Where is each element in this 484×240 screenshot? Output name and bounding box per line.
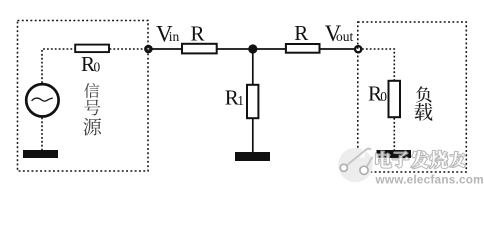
ground (middle, below R1) (235, 152, 270, 161)
wire R1 to ground (252, 119, 254, 152)
svg-text:0: 0 (94, 60, 101, 75)
label Vin (156, 22, 180, 47)
svg-text:www.elecfans.com: www.elecfans.com (375, 172, 484, 186)
wire (dotted) Vout to load R0 (362, 49, 394, 150)
svg-text:0: 0 (380, 89, 387, 104)
ground (load) (377, 150, 412, 158)
load enclosure (dashed box) (358, 22, 467, 172)
svg-text:1: 1 (237, 93, 244, 108)
AC signal source (circle with sine) (26, 84, 58, 116)
svg-text:R: R (294, 21, 308, 45)
label 负载 (load) (415, 86, 433, 120)
resistor R (series, second) (286, 44, 320, 53)
watermark logo (elecfans) (338, 148, 373, 183)
resistor R0 (source internal resistance) (75, 45, 109, 53)
wire junction to resistor R (second) (253, 48, 285, 50)
label R0 (load) (368, 81, 387, 105)
watermark text 电子发烧友 (376, 151, 466, 169)
junction node (R, R, R1) (248, 44, 257, 53)
label R1 (225, 86, 244, 110)
wire resistor R to junction (218, 48, 254, 50)
node Vin (terminal) (145, 46, 151, 52)
label Vout (325, 21, 354, 46)
wire junction down to R1 (252, 49, 254, 84)
svg-text:out: out (336, 29, 354, 44)
svg-text:R: R (191, 22, 205, 46)
resistor R (series, first) (182, 44, 217, 54)
wire (dotted) source top to R0 and R0 to Vin node (42, 49, 146, 150)
ground (signal source) (23, 150, 58, 158)
node Vout (terminal) (355, 46, 361, 52)
label R0 (81, 52, 101, 76)
wire resistor R to Vout node (320, 48, 355, 50)
signal source enclosure (dashed box) (18, 21, 149, 172)
resistor R1 (shunt) (247, 85, 258, 118)
resistor R0 (load) (389, 81, 401, 117)
svg-text:in: in (169, 29, 180, 44)
label 信号源 (signal source) (83, 83, 101, 136)
wire Vin node to resistor R (152, 48, 181, 50)
